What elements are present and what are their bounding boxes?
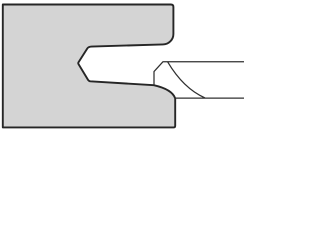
cutter lower line <box>176 97 245 99</box>
cutter curved cutting edge <box>168 62 205 98</box>
workpiece (gray cross-section with tapered notch and rounded-over tongue) <box>3 5 175 128</box>
cutter upper line <box>154 62 244 85</box>
